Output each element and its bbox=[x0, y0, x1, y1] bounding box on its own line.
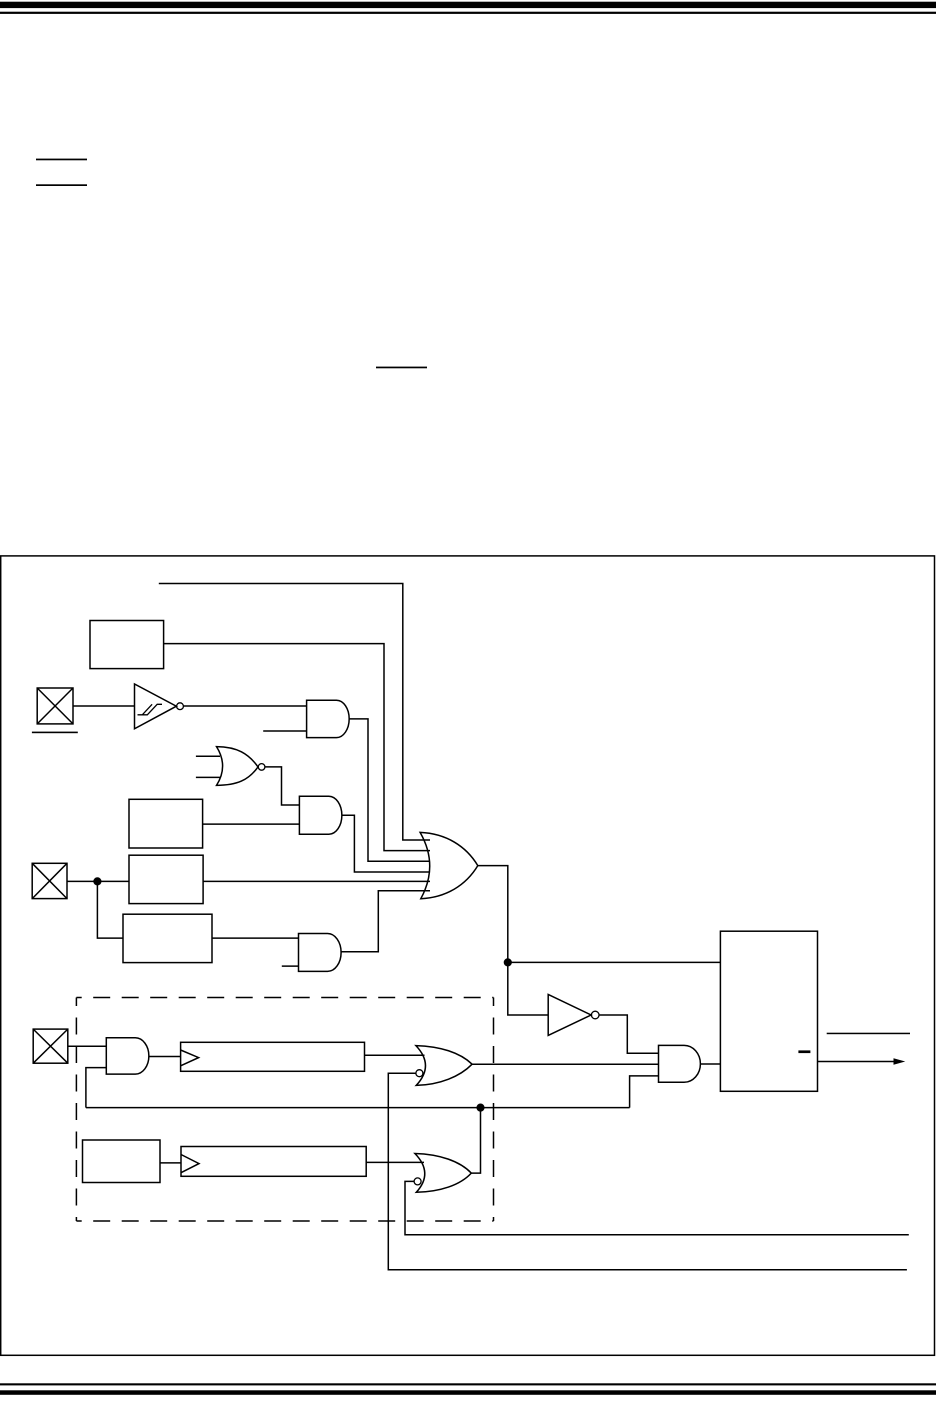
bubble on O2 enable input bbox=[416, 1070, 423, 1077]
Schmitt output bubble bbox=[177, 703, 184, 710]
wire O2 output to AND A4 bbox=[472, 1063, 658, 1065]
wire Chip_Reset output bbox=[818, 1061, 896, 1063]
wire SLEEP to OR input 1 bbox=[159, 584, 430, 841]
arrowhead Chip_Reset bbox=[894, 1058, 906, 1064]
pin VDD bbox=[32, 863, 67, 898]
overline MCLR (mid paragraph) bbox=[376, 367, 427, 369]
header thin rule bbox=[0, 12, 936, 14]
dashed box OST/PWRT module bbox=[76, 998, 493, 1222]
AND gate A3 (brown-out enable) bbox=[299, 934, 342, 972]
wire brown-out reset to AND A3 bbox=[212, 937, 299, 939]
pin OSC1/CLKIN bbox=[33, 1029, 68, 1063]
wire OR output to S input and inverter bbox=[478, 866, 548, 1015]
wire A1 output to OR input 3 bbox=[349, 719, 430, 861]
wire A5 output to OST counter bbox=[149, 1056, 181, 1058]
pin MCLR bbox=[37, 688, 73, 724]
wire OST counter to OR gate O2 bbox=[365, 1054, 425, 1056]
stub BOREN into A3 bbox=[282, 965, 299, 967]
NOR output bubble bbox=[258, 764, 265, 771]
overline MCLR (body text line 1) bbox=[36, 159, 87, 161]
wire OSC1 pin to AND A5 bbox=[68, 1045, 107, 1047]
junction time-out node bbox=[476, 1104, 484, 1112]
AND gate A1 (MCLR/SLEEP) bbox=[307, 700, 350, 737]
wire A4 output to latch R input bbox=[700, 1063, 720, 1065]
block WDT module bbox=[90, 621, 164, 669]
wire inverter to AND A4 top input bbox=[599, 1015, 659, 1053]
wire A5 lower input from feedback bbox=[86, 1068, 106, 1108]
block on-chip RC OSC bbox=[83, 1140, 161, 1183]
overline of MCLR pin label bbox=[32, 732, 78, 734]
Q-bar overline inside latch bbox=[798, 1050, 810, 1053]
OR gate (reset sources) bbox=[420, 832, 478, 898]
junction S node bbox=[504, 958, 512, 966]
inverter U2 bbox=[548, 995, 591, 1036]
wire A2 output to OR input 4 bbox=[342, 815, 430, 872]
wire RC OSC to PWRT counter bbox=[160, 1162, 181, 1164]
wire brown-out to AND A2 bbox=[203, 823, 300, 825]
wire NOR to AND A2 bbox=[265, 767, 300, 805]
AND gate A2 (brown-out reset) bbox=[299, 796, 341, 834]
OR gate O2 (OST time-out) bbox=[416, 1046, 472, 1086]
wire VDD pin to rise detect bbox=[67, 880, 129, 882]
figure frame bbox=[1, 556, 935, 1355]
inverter output bubble bbox=[591, 1011, 599, 1019]
wire feedback up to AND A4 lower input bbox=[630, 1076, 659, 1108]
block OST 10-bit ripple counter bbox=[181, 1042, 365, 1071]
S-R latch bbox=[720, 931, 817, 1091]
Schmitt trigger buffer bbox=[135, 684, 177, 729]
clock symbol of PWRT counter bbox=[181, 1155, 199, 1173]
wire enable OST into O2 bubble bbox=[388, 1073, 907, 1270]
block VDD rise detect bbox=[129, 855, 203, 903]
stub NOR input 1 bbox=[196, 755, 220, 757]
junction VDD node bbox=[93, 877, 101, 885]
wire MCLR pin to Schmitt input bbox=[73, 705, 135, 707]
block brown-out reset bbox=[123, 914, 212, 962]
wire enable PWRT into O3 bubble bbox=[405, 1181, 909, 1234]
wire A3 output to OR input 6 bbox=[341, 891, 430, 952]
wire POR to OR input 5 bbox=[203, 880, 430, 882]
stub NOR input 2 bbox=[196, 776, 221, 778]
footer thick rule bbox=[0, 1390, 936, 1395]
wire Schmitt to AND A1 bbox=[183, 705, 306, 707]
AND gate A4 (R input of latch) bbox=[659, 1045, 701, 1082]
stub SLEEP into A1 bbox=[263, 730, 306, 732]
OR gate O3 (PWRT time-out) bbox=[415, 1154, 471, 1193]
AND gate A5 (OST clock gate) bbox=[106, 1038, 149, 1074]
clock symbol of OST counter bbox=[181, 1050, 199, 1066]
block brown-out detect bbox=[129, 799, 203, 848]
header thick rule bbox=[0, 2, 936, 8]
Schmitt hysteresis symbol bbox=[138, 704, 163, 715]
wire PWRT counter to OR gate O3 bbox=[366, 1161, 424, 1163]
wire VDD node down to brown-out reset block bbox=[97, 881, 123, 938]
overline of Chip_Reset label bbox=[827, 1033, 910, 1035]
footer thin rule bbox=[0, 1383, 936, 1385]
wire O3 output up to time-out node bbox=[471, 1108, 480, 1174]
block PWRT 10-bit ripple counter bbox=[181, 1147, 366, 1177]
bubble on O3 enable input bbox=[414, 1178, 421, 1185]
overline MCLR (body text line 2) bbox=[36, 184, 87, 186]
NOR gate (BOREN/SBOREN) bbox=[217, 747, 259, 786]
wire S node to latch S input bbox=[508, 961, 721, 963]
wire time-out feedback line bbox=[86, 1107, 630, 1109]
wire WDT time-out to OR input 2 bbox=[164, 644, 430, 851]
